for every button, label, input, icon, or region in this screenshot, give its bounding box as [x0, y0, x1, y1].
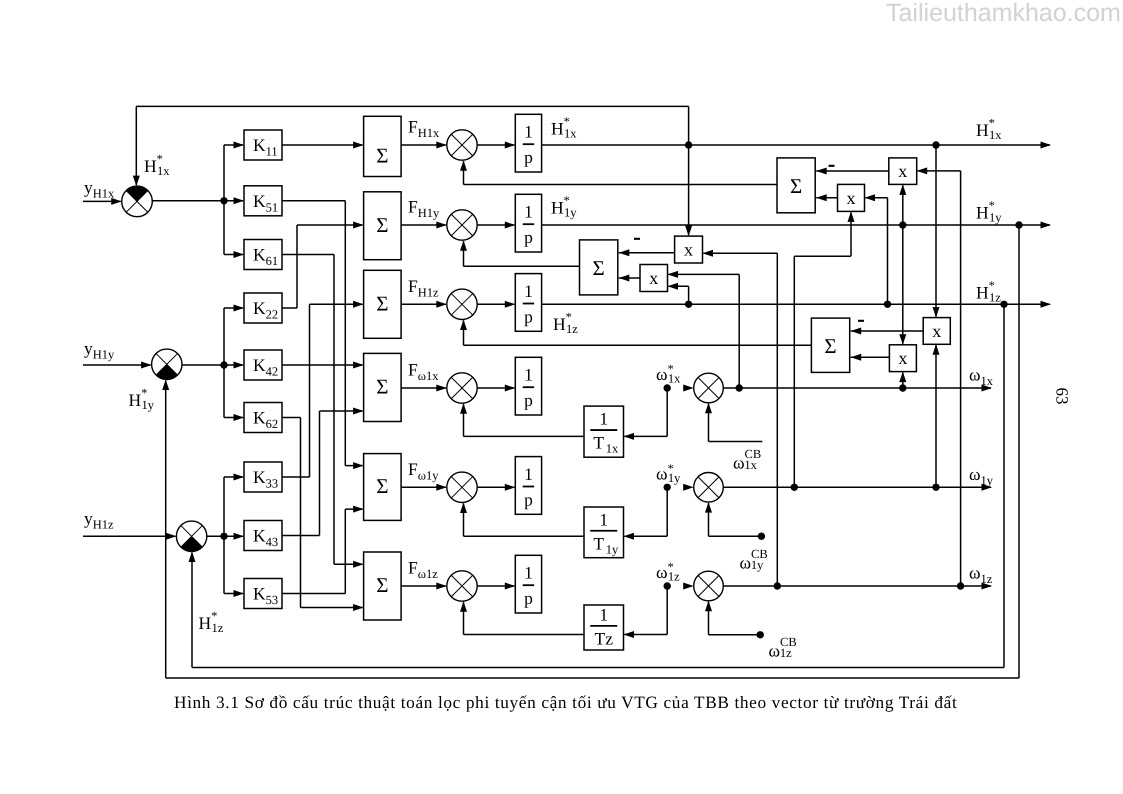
wire e1 output	[152, 200, 243, 202]
wire Sigma5 to mixer row5	[401, 486, 446, 488]
svg-text:p: p	[524, 489, 533, 509]
wire omega* to CB mixer row5	[683, 484, 694, 491]
node omega_1y up	[791, 484, 798, 491]
wire omega tap down to 1/T row6	[666, 586, 668, 635]
node H*_1x to E	[932, 141, 939, 148]
gain block K33	[244, 462, 282, 492]
wire H*_1z return	[1003, 304, 1005, 667]
gain block K22	[244, 293, 282, 323]
svg-text:Tailieuthamkhao.com: Tailieuthamkhao.com	[886, 0, 1121, 27]
wire Sigma3 to mixer row3	[401, 303, 446, 305]
gain block K43	[244, 521, 282, 551]
wire K22 to Sigma2	[282, 307, 297, 309]
svg-text:x: x	[898, 161, 907, 181]
minus sign row1-cross	[829, 165, 835, 167]
summer Sigma row1-cross	[777, 158, 815, 213]
wire K33 to Sigma3	[282, 476, 310, 478]
wire omega_1x output line	[723, 387, 991, 389]
svg-text:Σ: Σ	[376, 213, 388, 237]
node omega_1z up	[774, 582, 781, 589]
summer Sigma3 (F_H1z)	[364, 270, 402, 338]
gain block K62	[244, 403, 282, 433]
wire omega_CB_1x input	[708, 404, 710, 442]
wire w1y up to E	[935, 345, 937, 487]
minus sign row3-cross	[858, 320, 864, 322]
node omega_1y to E	[932, 484, 939, 491]
integrator 1/p row1	[515, 114, 541, 172]
node e1 junction	[220, 197, 227, 204]
wire K53 to Sigma5	[282, 593, 345, 595]
integrator 1/p row5	[515, 457, 541, 515]
wire omega_CB_1y input	[708, 503, 710, 536]
svg-text:Σ: Σ	[824, 334, 836, 358]
wire e1 to K11	[223, 145, 225, 201]
product mixer row2	[447, 210, 477, 240]
wire H1y to A	[902, 185, 904, 225]
wire 1/T row6 to mixer	[464, 634, 585, 636]
wire w1y to B	[793, 256, 795, 487]
CB correction mixer row4	[694, 373, 724, 403]
integrator 1/p row4	[515, 357, 541, 415]
wire e2 output	[182, 364, 243, 366]
svg-text:Σ: Σ	[376, 573, 388, 597]
summer Sigma6 (F_om1z)	[364, 552, 402, 620]
svg-text:1y: 1y	[606, 542, 619, 556]
wire mixer to 1/p row6	[477, 585, 514, 587]
svg-text:Σ: Σ	[376, 143, 388, 167]
svg-text:1: 1	[524, 281, 533, 301]
svg-text:x: x	[898, 348, 907, 368]
wire K43 to Sigma4	[282, 535, 320, 537]
wire H1z to G	[688, 286, 690, 304]
wire e3 to K53	[223, 536, 225, 593]
node omega_1x up	[736, 384, 743, 391]
wire K11 to Sigma1	[282, 144, 363, 146]
node H*_1z to G	[685, 301, 692, 308]
gain block K11	[244, 130, 282, 160]
svg-text:1: 1	[599, 409, 608, 429]
integrator 1/p row3	[515, 274, 541, 332]
wire e3 output	[207, 535, 243, 537]
svg-text:1: 1	[524, 563, 533, 583]
wire w1x to G	[738, 274, 740, 388]
summer Sigma row3-cross	[811, 318, 849, 372]
svg-text:1: 1	[524, 202, 533, 222]
svg-text:1: 1	[599, 605, 608, 625]
summer Sigma1 (F_H1x)	[364, 116, 402, 176]
wire w1x up to D	[902, 373, 904, 388]
CB correction mixer row6	[694, 571, 724, 601]
product mixer row1	[447, 130, 477, 160]
svg-text:Hình 3.1 Sơ đồ cấu trúc thuật: Hình 3.1 Sơ đồ cấu trúc thuật toán lọc p…	[174, 693, 957, 712]
wire e2 to K22	[223, 308, 225, 365]
time-constant block 1/T1x row4	[584, 406, 624, 457]
wire H*_1x feedback top	[136, 105, 689, 107]
wire 1/T row5 to mixer	[464, 535, 585, 537]
node omega*_1z junction	[664, 582, 671, 589]
product mixer row5	[447, 472, 477, 502]
svg-text:1: 1	[599, 509, 608, 529]
svg-text:Σ: Σ	[376, 291, 388, 315]
summer Sigma row2-cross	[580, 240, 618, 295]
wire H*_1y output line	[542, 224, 1050, 226]
time-constant block 1/Tz row6	[584, 605, 624, 650]
svg-text:T: T	[593, 533, 604, 553]
wire cross-product feedback row1	[464, 184, 778, 186]
summer Sigma5 (F_om1y)	[364, 454, 402, 521]
wire H*_1x output line	[542, 144, 1050, 146]
gain block K61	[244, 240, 282, 270]
wire K62 to Sigma6	[282, 417, 301, 419]
wire e1 to K61	[223, 201, 225, 255]
wire F to Sigma2'	[619, 252, 675, 254]
summing mixer Y (y_H1y)	[152, 349, 182, 379]
node omega*_1y junction	[664, 484, 671, 491]
wire omega tap down to 1/T row4	[666, 388, 668, 436]
node H*_1y return	[1015, 221, 1022, 228]
wire omega tap down to 1/T row5	[666, 487, 668, 536]
svg-text:x: x	[847, 188, 856, 208]
wire e2 to K62	[223, 365, 225, 418]
svg-text:1: 1	[524, 122, 533, 142]
node H*_1z to B	[884, 301, 891, 308]
gain block K51	[244, 186, 282, 216]
node H*_1y to A/D	[899, 221, 906, 228]
wire e3 to K33	[223, 477, 225, 536]
wire E to Sigma3'	[851, 330, 924, 332]
summing mixer Z (y_H1z)	[176, 521, 206, 551]
wire omega_1z output line	[723, 585, 991, 587]
integrator 1/p row6	[515, 555, 541, 613]
svg-text:x: x	[932, 321, 941, 341]
node omega_1z to A	[957, 582, 964, 589]
wire K51 to Sigma5	[282, 200, 345, 202]
svg-text:Σ: Σ	[376, 474, 388, 498]
multiplier X B (w1y*H1z)	[838, 184, 865, 211]
wire G to Sigma2'	[619, 277, 640, 279]
minus sign row2-cross	[634, 238, 640, 240]
node H*_1z return	[1000, 301, 1007, 308]
gain block K42	[244, 350, 282, 380]
wire H1x down to E	[935, 145, 937, 317]
wire omega_CB_1z input	[708, 602, 710, 635]
wire K61 to Sigma6	[282, 254, 334, 256]
multiplier X A (w1z*H1y)	[889, 158, 917, 185]
wire omega_1y output line	[723, 486, 991, 488]
summer Sigma2 (F_H1y)	[364, 192, 402, 260]
wire mixer to 1/p row5	[477, 486, 514, 488]
node e3 junction	[220, 533, 227, 540]
wire mixer to 1/p row4	[477, 387, 514, 389]
wire Sigma1 to mixer row1	[401, 144, 446, 146]
svg-text:Tz: Tz	[595, 629, 614, 649]
wire mixer to 1/p row1	[477, 144, 514, 146]
wire H1x down to F	[688, 145, 690, 235]
svg-text:1: 1	[524, 464, 533, 484]
node omega*_1x junction	[664, 384, 671, 391]
svg-text:x: x	[649, 268, 658, 288]
svg-text:1x: 1x	[606, 442, 619, 456]
product mixer row3	[447, 289, 477, 319]
wire cross-product feedback row2	[464, 265, 580, 267]
multiplier X E (w1y*H1x)	[923, 318, 950, 345]
wire mixer to 1/p row2	[477, 224, 514, 226]
summer Sigma4 (F_om1x)	[364, 353, 402, 421]
wire 1/T row4 to mixer	[464, 435, 585, 437]
wire H*_1y return	[1018, 225, 1020, 678]
svg-text:p: p	[524, 306, 533, 326]
multiplier X D (w1x*H1y)	[889, 345, 916, 372]
multiplier X G (w1x*H1z)	[640, 265, 668, 292]
svg-text:p: p	[524, 147, 533, 167]
svg-text:Σ: Σ	[376, 374, 388, 398]
wire Sigma6 to mixer row6	[401, 585, 446, 587]
wire w1z to F	[776, 253, 778, 586]
wire Sigma2 to mixer row2	[401, 224, 446, 226]
gain block K53	[244, 579, 282, 609]
wire y_H1z input	[83, 535, 175, 537]
integrator 1/p row2	[515, 194, 541, 252]
product mixer row4	[447, 373, 477, 403]
summing mixer X (y_H1x)	[122, 186, 153, 217]
node omega_1x to D	[899, 384, 906, 391]
wire y_H1x input	[83, 200, 121, 202]
svg-text:1: 1	[524, 365, 533, 385]
svg-text:T: T	[593, 433, 604, 453]
product mixer row6	[447, 571, 477, 601]
wire mixer to 1/p row3	[477, 303, 514, 305]
svg-text:p: p	[524, 390, 533, 410]
svg-text:x: x	[684, 240, 693, 260]
CB correction mixer row5	[694, 473, 724, 503]
wire Sigma4 to mixer row4	[401, 387, 446, 389]
wire omega* to CB mixer row6	[683, 583, 694, 590]
svg-text:Σ: Σ	[593, 256, 605, 280]
wire w1z to A	[960, 171, 962, 586]
multiplier X F (w1z*H1x)	[675, 236, 703, 263]
wire D to Sigma3'	[851, 356, 890, 358]
svg-text:p: p	[524, 588, 533, 608]
wire y_H1y input	[83, 364, 151, 366]
wire omega* to CB mixer row4	[683, 385, 694, 392]
wire B to Sigma1'	[816, 197, 837, 199]
node e2 junction	[220, 361, 227, 368]
svg-text:Σ: Σ	[790, 174, 802, 198]
wire H*_1z output line	[542, 303, 1050, 305]
wire H1z to B	[887, 198, 889, 305]
wire cross-product feedback row3	[464, 344, 812, 346]
svg-text:63: 63	[1053, 388, 1072, 405]
svg-text:p: p	[524, 227, 533, 247]
wire K42 to Sigma4	[282, 364, 363, 366]
time-constant block 1/T1y row5	[584, 507, 624, 558]
wire H1y down to D	[902, 225, 904, 344]
wire A to Sigma1'	[816, 170, 889, 172]
node H*_1x to F	[685, 141, 692, 148]
